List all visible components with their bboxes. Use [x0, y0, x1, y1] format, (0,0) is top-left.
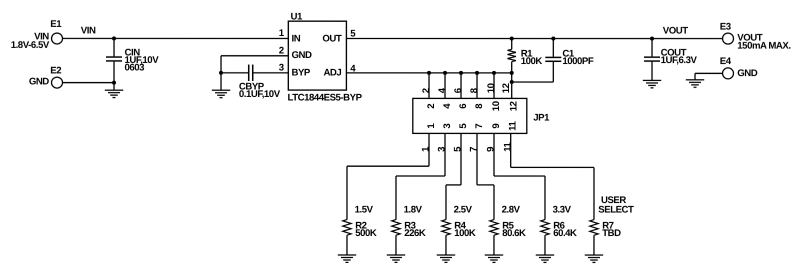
svg-text:GND: GND: [737, 68, 757, 79]
svg-text:3.3V: 3.3V: [553, 205, 572, 216]
connector JP1 body: [413, 98, 550, 133]
svg-text:10: 10: [486, 83, 497, 93]
op-amp U1 LTC1844ES5-BYP body: [288, 11, 363, 103]
wire JP1 pin 9 to resistor: [494, 133, 545, 219]
node junction COUT top: [650, 37, 654, 41]
ground below CIN: [105, 83, 123, 98]
terminal E1: [11, 19, 63, 51]
svg-text:6: 6: [458, 104, 469, 109]
capacitor C1 1000PF: [545, 39, 594, 83]
svg-text:IN: IN: [292, 34, 301, 45]
wire JP1 pin 10 stub: [493, 73, 495, 99]
ground below E4: [686, 80, 704, 87]
svg-text:2: 2: [426, 104, 437, 109]
svg-text:7: 7: [474, 124, 485, 129]
svg-text:4: 4: [437, 87, 448, 93]
svg-text:E4: E4: [720, 56, 732, 67]
svg-text:4: 4: [442, 103, 453, 109]
svg-text:E2: E2: [50, 65, 61, 76]
node junction ADJ/pin 10: [492, 71, 496, 75]
svg-text:1.8V-6.5V: 1.8V-6.5V: [11, 40, 50, 51]
svg-text:GND: GND: [292, 50, 312, 61]
svg-text:1.5V: 1.5V: [355, 204, 374, 215]
wire E2 to CIN: [62, 82, 114, 84]
svg-text:8: 8: [469, 87, 480, 93]
node junction VIN/CIN: [112, 36, 116, 40]
svg-text:3: 3: [437, 147, 448, 152]
terminal E4: [720, 56, 758, 79]
svg-text:LTC1844ES5-BYP: LTC1844ES5-BYP: [288, 93, 363, 104]
svg-text:2: 2: [279, 45, 284, 56]
node junction ADJ/pin 8: [475, 71, 479, 75]
wire JP1 pin 3 to resistor: [396, 133, 445, 219]
wire GND pin 2: [221, 56, 288, 73]
svg-text:1000PF: 1000PF: [562, 56, 593, 67]
wire BYP pin 3: [253, 72, 289, 74]
capacitor CIN 1UF,10V 0603: [106, 38, 159, 82]
svg-text:U1: U1: [291, 11, 303, 22]
ground below R5: [485, 255, 503, 262]
wire JP1 pin 1 to resistor: [347, 133, 429, 219]
svg-text:1: 1: [426, 123, 437, 129]
wire JP1 pin 8 stub: [476, 73, 478, 99]
capacitor COUT 1UF,6.3V: [644, 39, 698, 81]
svg-text:BYP: BYP: [292, 68, 311, 79]
svg-text:5: 5: [453, 146, 464, 152]
svg-text:TBD: TBD: [602, 228, 621, 239]
wire VOUT net: [346, 37, 722, 39]
label USER SELECT: [598, 195, 634, 216]
svg-text:6: 6: [453, 88, 464, 93]
ground below R4: [437, 255, 455, 262]
svg-text:11: 11: [508, 120, 519, 130]
svg-text:1: 1: [279, 28, 285, 39]
svg-text:2.8V: 2.8V: [502, 205, 521, 216]
ground below COUT: [643, 80, 661, 87]
node junction C1 top: [551, 37, 555, 41]
node junction R1 bottom / ADJ: [510, 71, 514, 75]
svg-text:9: 9: [486, 147, 497, 152]
svg-text:0.1UF,10V: 0.1UF,10V: [239, 89, 281, 100]
svg-text:12: 12: [509, 101, 520, 111]
svg-text:80.6K: 80.6K: [502, 228, 526, 239]
svg-text:12: 12: [501, 83, 512, 93]
wire CBYP to ground node: [221, 72, 249, 74]
resistor R4 100K: [442, 205, 476, 256]
wire E4 to ground: [695, 73, 722, 80]
svg-text:226K: 226K: [404, 228, 426, 239]
wire JP1 pin 2 stub: [428, 73, 430, 99]
terminal E3: [720, 21, 791, 51]
wire JP1 pin 6 stub: [460, 73, 462, 99]
terminal E2: [29, 65, 63, 88]
wire JP1 pin 5 to resistor: [446, 133, 461, 219]
wire ADJ net: [346, 72, 511, 74]
resistor R7 TBD: [590, 220, 621, 255]
resistor R5 80.6K: [490, 205, 526, 256]
wire JP1 pin 11 to resistor: [511, 133, 594, 219]
svg-text:11: 11: [502, 141, 513, 151]
svg-text:3: 3: [442, 124, 453, 129]
svg-text:1: 1: [421, 146, 432, 152]
svg-text:60.4K: 60.4K: [553, 228, 577, 239]
svg-text:1.8V: 1.8V: [404, 205, 423, 216]
svg-text:9: 9: [491, 124, 502, 129]
svg-text:8: 8: [474, 103, 485, 109]
node junction pin12/C1: [510, 80, 514, 84]
svg-text:7: 7: [469, 147, 480, 152]
node junction CIN/E2: [112, 81, 116, 85]
svg-text:VIN: VIN: [81, 26, 96, 37]
node junction ADJ/pin 4: [443, 71, 447, 75]
ground below R2: [338, 255, 356, 262]
svg-text:5: 5: [458, 123, 469, 129]
wire VIN net: [62, 37, 288, 39]
svg-text:E1: E1: [50, 19, 62, 30]
svg-text:3: 3: [279, 62, 284, 73]
wire JP1 pin 7 to resistor: [477, 133, 494, 219]
wire JP1 pin 4 stub: [444, 73, 446, 99]
svg-text:2: 2: [421, 88, 432, 93]
wire C1 bottom to ADJ: [512, 81, 554, 83]
svg-text:SELECT: SELECT: [598, 205, 634, 216]
svg-text:2.5V: 2.5V: [454, 205, 473, 216]
node junction GND/BYP: [219, 71, 223, 75]
svg-text:1UF,6.3V: 1UF,6.3V: [661, 55, 698, 66]
resistor R6 60.4K: [541, 205, 577, 256]
svg-text:E3: E3: [720, 21, 731, 32]
svg-text:10: 10: [491, 101, 502, 111]
svg-text:500K: 500K: [355, 228, 377, 239]
node junction ADJ/pin 6: [459, 71, 463, 75]
capacitor CBYP 0.1UF,10V: [239, 65, 281, 100]
resistor R3 226K: [392, 204, 426, 255]
ground below R7: [585, 255, 603, 262]
svg-text:150mA MAX.: 150mA MAX.: [737, 40, 790, 51]
svg-text:JP1: JP1: [533, 112, 550, 123]
ground below R6: [536, 255, 554, 262]
svg-text:0603: 0603: [125, 62, 145, 73]
wire JP1 pin 12 stub: [511, 73, 513, 99]
svg-text:OUT: OUT: [322, 34, 341, 45]
svg-text:100K: 100K: [454, 228, 476, 239]
svg-text:100K: 100K: [521, 56, 543, 67]
svg-text:VOUT: VOUT: [663, 26, 688, 37]
node junction ADJ/pin 2: [427, 71, 431, 75]
node junction R1 top: [510, 37, 514, 41]
svg-text:ADJ: ADJ: [323, 68, 341, 79]
ground below CBYP: [212, 73, 230, 98]
ground below R3: [387, 255, 405, 262]
svg-text:GND: GND: [29, 76, 49, 87]
resistor R1 100K: [508, 39, 543, 73]
resistor R2 500K: [343, 204, 377, 255]
